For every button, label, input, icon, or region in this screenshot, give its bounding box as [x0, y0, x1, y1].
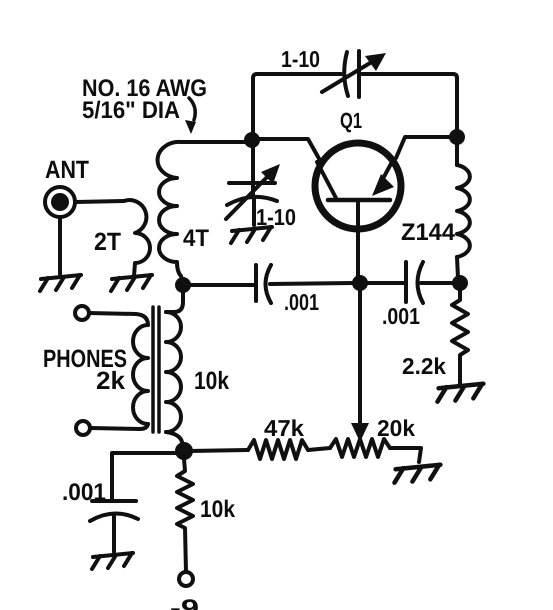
- svg-text:1-10: 1-10: [256, 204, 296, 230]
- svg-text:.001: .001: [284, 289, 319, 315]
- svg-text:ANT: ANT: [45, 156, 89, 184]
- svg-text:1-10: 1-10: [281, 46, 320, 72]
- svg-text:20k: 20k: [377, 415, 415, 441]
- svg-text:Z144: Z144: [401, 219, 456, 246]
- svg-text:.001: .001: [382, 303, 420, 329]
- svg-text:4T: 4T: [183, 225, 209, 252]
- svg-text:10k: 10k: [194, 367, 229, 395]
- svg-text:2.2k: 2.2k: [402, 353, 446, 379]
- svg-text:2T: 2T: [94, 228, 121, 256]
- svg-text:5/16" DIA: 5/16" DIA: [82, 97, 180, 124]
- svg-text:10k: 10k: [200, 496, 236, 523]
- svg-text:2k: 2k: [96, 367, 125, 395]
- svg-text:47k: 47k: [264, 415, 304, 441]
- svg-text:-9: -9: [170, 595, 199, 610]
- svg-text:Q1: Q1: [340, 108, 362, 133]
- svg-text:.001: .001: [62, 479, 106, 506]
